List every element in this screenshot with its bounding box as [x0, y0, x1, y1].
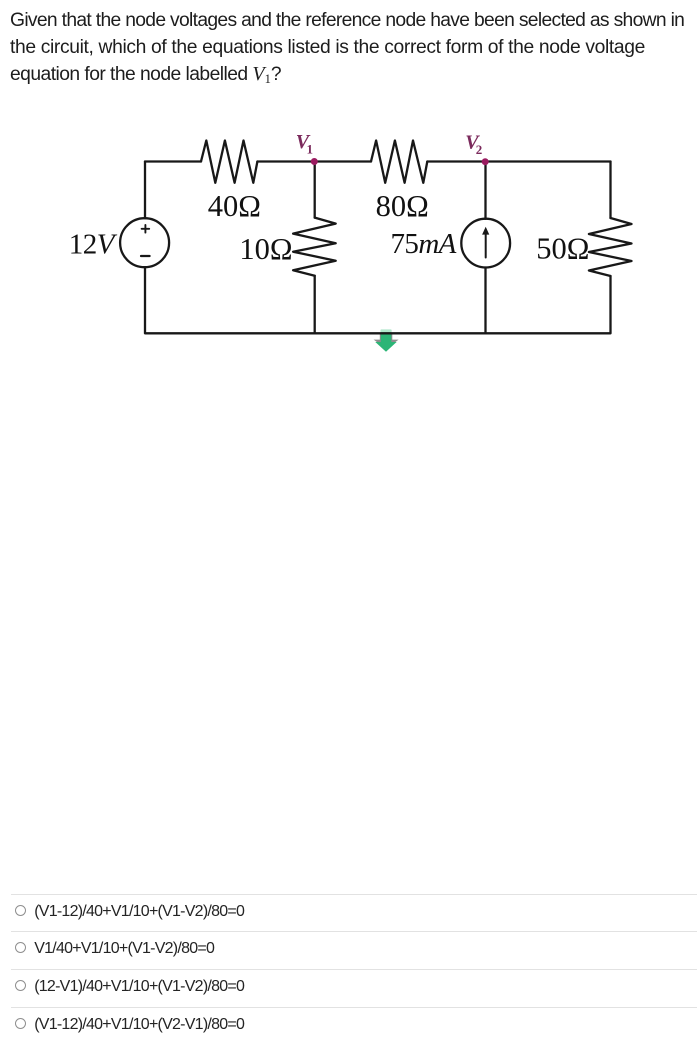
resistor 80Ω	[371, 141, 427, 183]
wire top left segment	[145, 160, 201, 162]
wire left vertical lower	[144, 267, 146, 333]
resistor 10Ω	[293, 218, 336, 276]
svg-text:12V: 12V	[69, 229, 118, 261]
svg-text:50Ω: 50Ω	[536, 232, 589, 266]
label 50Ω	[536, 232, 589, 266]
label 40Ω	[208, 189, 261, 223]
label 80Ω	[376, 189, 429, 223]
node V1	[311, 158, 318, 165]
resistor 50Ω	[589, 218, 632, 276]
wire left vertical upper	[144, 162, 146, 219]
svg-text:80Ω: 80Ω	[376, 189, 429, 223]
wire 10Ω branch lower	[314, 276, 316, 333]
svg-text:2: 2	[476, 142, 483, 157]
wire right vertical lower	[609, 276, 611, 333]
svg-text:75mA: 75mA	[391, 228, 457, 260]
svg-text:40Ω: 40Ω	[208, 189, 261, 223]
wire right vertical upper	[609, 162, 611, 219]
wire top middle segment	[257, 160, 371, 162]
current source 75mA	[461, 219, 510, 268]
wire bottom	[145, 332, 611, 334]
node V2	[482, 158, 489, 165]
label V2	[465, 132, 482, 158]
label 12V	[69, 229, 118, 261]
wire 10Ω branch upper	[314, 162, 316, 218]
label V1	[296, 131, 313, 157]
wire current source branch lower	[484, 268, 486, 333]
voltage source 12V	[120, 218, 169, 267]
wire top right segment	[427, 160, 610, 162]
ground reference arrow	[374, 330, 399, 352]
resistor 40Ω	[201, 141, 257, 183]
wire current source branch upper	[484, 162, 486, 219]
svg-text:1: 1	[307, 142, 314, 157]
label 10Ω	[239, 232, 292, 266]
svg-text:10Ω: 10Ω	[239, 232, 292, 266]
label 75mA	[391, 228, 457, 260]
